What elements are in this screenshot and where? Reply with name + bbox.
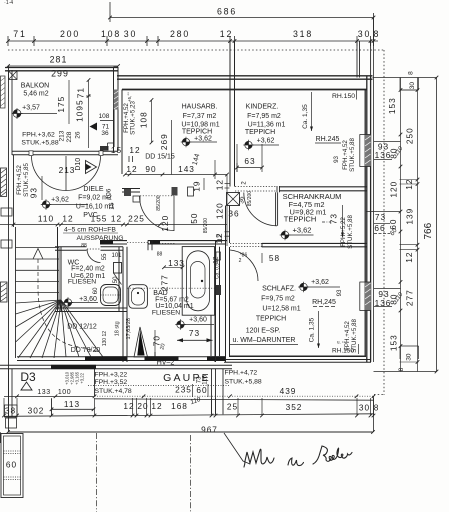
toilet [101,285,121,306]
svg-text:FPH.+4,72: FPH.+4,72 [225,370,258,377]
svg-text:88: 88 [81,243,87,249]
stair treads straight run [16,247,59,249]
svg-text:116: 116 [203,374,209,384]
svg-text:36: 36 [239,196,246,204]
svg-text:D3: D3 [20,370,36,384]
door arc diele [140,196,175,231]
svg-text:STUK.+5,88: STUK.+5,88 [347,214,354,248]
svg-text:12: 12 [126,164,137,174]
svg-text:12: 12 [111,214,122,224]
handwritten note WM in Keller [244,446,352,467]
window group lower: 93/136/80 [374,288,401,290]
tick extensions top right 30|8 [356,41,358,78]
svg-text:225: 225 [128,214,145,224]
dim chain line 1095 [88,80,90,148]
svg-text:38: 38 [5,406,16,416]
svg-text:DIELE: DIELE [83,186,104,193]
svg-text:175: 175 [56,96,66,113]
svg-text:153: 153 [387,97,397,114]
svg-text:73: 73 [329,213,339,224]
right chain line inner x400.5 [400,78,402,372]
svg-text:58: 58 [269,253,280,263]
svg-text:30: 30 [406,353,413,361]
svg-text:139: 139 [405,208,415,225]
stair winder fan [16,300,61,303]
svg-text:30: 30 [358,29,371,39]
bottom wall second line [0,364,232,366]
chimney hatch left lower [1,282,8,302]
svg-text:213: 213 [59,130,66,141]
svg-text:DD 70/20: DD 70/20 [71,347,101,354]
mid group 73/66/60 [366,211,401,213]
svg-text:U=12,58 m1: U=12,58 m1 [262,306,300,313]
svg-text:F=2,40 m2: F=2,40 m2 [71,266,105,273]
stair side wall [15,227,17,358]
dim 38 box [5,405,18,417]
svg-text:352: 352 [286,402,303,412]
svg-text:153: 153 [389,334,399,351]
wc right wall / bad divider [118,247,120,312]
svg-text:30: 30 [359,403,370,413]
svg-text:8: 8 [408,71,415,75]
svg-text:RH.150: RH.150 [332,93,355,100]
svg-text:FLIESEN: FLIESEN [152,310,180,317]
svg-text:25: 25 [227,402,238,412]
svg-text:143: 143 [178,164,195,174]
level mark +3,62 kinderz [243,140,253,150]
wc door arc [87,249,101,263]
diele north walls and posts [122,188,140,190]
wc top wall [55,246,123,248]
chimney hatch left wall [1,168,7,197]
leader line to handwriting [224,433,250,464]
stair walk line dashed [38,259,100,352]
right outer wall [366,76,368,362]
bottom right 8/30 box [399,346,401,359]
svg-text:235: 235 [175,385,192,395]
balcony top wall [5,67,118,69]
svg-text:12: 12 [123,401,134,411]
svg-text:12: 12 [404,179,414,190]
svg-text:·1·4¯: ·1·4¯ [4,0,16,6]
svg-text:108: 108 [101,29,121,39]
wc bottom wall [55,307,127,309]
gaupe side walls [94,369,96,397]
svg-text:+3,57: +3,57 [22,105,40,112]
svg-text:71: 71 [76,87,86,98]
svg-text:18 stg: 18 stg [115,321,121,336]
svg-text:TEPPICH: TEPPICH [284,214,317,223]
svg-text:250: 250 [405,127,415,144]
svg-text:STUK.+5,88: STUK.+5,88 [351,318,358,352]
svg-text:30: 30 [409,82,416,90]
svg-text:200: 200 [60,29,80,39]
door diele dotted opening [140,195,174,197]
svg-text:20: 20 [137,401,148,411]
svg-text:FPH.+3,52: FPH.+3,52 [95,379,128,386]
hausarb wall corner step [100,146,109,151]
svg-text:+3,62: +3,62 [311,279,329,286]
svg-text:+3,22: +3,22 [80,372,85,383]
svg-text:85/200: 85/200 [156,195,162,211]
svg-text:100: 100 [58,389,71,396]
svg-text:106: 106 [106,188,113,199]
svg-text:12: 12 [215,179,225,190]
svg-text:15: 15 [111,145,122,155]
balcony bottom wall with door [12,150,118,152]
dotted RH line bad [127,287,215,289]
svg-text:63: 63 [244,156,255,166]
door arc to schlafz lower [230,250,258,281]
svg-text:766: 766 [423,222,434,239]
label HV-2 [154,358,179,367]
svg-text:STUK.+4,78: STUK.+4,78 [95,388,132,395]
dash-dot verticals below [96,433,98,512]
left lower block [11,369,13,417]
svg-text:4–5 cm ROH=FB: 4–5 cm ROH=FB [64,227,116,234]
svg-text:12: 12 [213,256,220,264]
svg-text:STUK.+5,88: STUK.+5,88 [349,137,356,171]
svg-text:280: 280 [170,29,190,39]
svg-text:120: 120 [215,202,225,219]
svg-text:SCHLAFZ.: SCHLAFZ. [262,286,296,293]
svg-text:+3,62: +3,62 [293,225,312,234]
duct hatch between bad and schlafz [216,285,221,295]
corridor wall verticals [225,206,227,363]
balcony left wall [8,66,10,432]
wall diele south left segment [100,240,127,242]
right extension line x373 [373,18,375,362]
schlafz bottom wall [229,355,366,357]
bathtub [182,247,214,316]
svg-text:85/200: 85/200 [247,191,253,207]
svg-text:FPH.+4,52: FPH.+4,52 [342,140,349,170]
svg-text:73: 73 [189,328,200,338]
svg-text:STUK.+5,23: STUK.+5,23 [130,100,137,134]
svg-text:Ca. 1,35: Ca. 1,35 [302,104,309,129]
dotted opening schlafz door [230,243,262,245]
kinderz wall stub below 63 dim [236,144,238,172]
svg-text:FPH.+3,62: FPH.+3,62 [22,132,55,139]
svg-text:85/200: 85/200 [203,218,209,234]
svg-text:130 12: 130 12 [102,331,108,347]
dim row top (71/200/108/30/280/12/318/30/8) [8,40,378,42]
svg-text:8: 8 [374,29,380,39]
svg-text:8: 8 [374,403,380,413]
svg-text:TEPPICH: TEPPICH [256,316,286,323]
svg-text:DD 12/12: DD 12/12 [67,324,97,331]
svg-text:101: 101 [111,253,122,259]
svg-text:F=9,75 m2: F=9,75 m2 [261,296,295,303]
dotted lines lower diele [148,243,175,245]
svg-text:88: 88 [157,252,163,258]
post with X hatch [227,193,240,206]
svg-text:302: 302 [28,406,45,416]
svg-text:+3,60: +3,60 [189,317,207,324]
svg-text:HAUSARB.: HAUSARB. [182,104,218,111]
svg-text:F=7,95 m2: F=7,95 m2 [247,113,281,120]
svg-text:36: 36 [228,209,239,219]
svg-text:318: 318 [293,29,313,39]
balcony corner X box [9,71,18,80]
svg-text:36: 36 [101,130,109,137]
level mark +3,62 diele [41,199,51,209]
svg-text:299: 299 [51,68,69,78]
svg-text:155: 155 [91,214,108,224]
RH 245 arrow line [342,205,344,237]
svg-text:30: 30 [124,29,137,39]
svg-text:RH,245: RH,245 [312,299,336,306]
svg-text:12: 12 [220,29,233,39]
balcony right wall [113,67,115,151]
svg-text:1095: 1095 [75,99,85,121]
svg-text:RH.245: RH.245 [316,136,340,143]
svg-text:KINDERZ.: KINDERZ. [246,104,279,111]
schlafz top wall [262,242,367,244]
svg-text:FPH.+4,52: FPH.+4,52 [344,321,351,351]
balcony wall to main wall step [114,66,119,68]
svg-text:TEPPICH: TEPPICH [182,129,212,136]
svg-text:D10: D10 [75,158,82,171]
svg-text:12: 12 [62,214,73,224]
right chain line outer x417.5 [417,78,419,372]
svg-text:15: 15 [109,202,116,210]
balcony door double arc [32,156,101,191]
dotted wall opening kinderz-schrankraum [235,186,277,188]
svg-text:133: 133 [37,389,50,396]
level mark +3,62 schrankraum [280,230,291,241]
svg-text:STUK.+5,88: STUK.+5,88 [21,140,58,147]
svg-text:STUK.+5,88: STUK.+5,88 [225,379,262,386]
svg-text:213: 213 [59,165,76,175]
svg-text:U=11,36 m1: U=11,36 m1 [248,122,286,129]
svg-text:26: 26 [75,131,82,139]
level mark +3,62 hausarb [181,137,191,147]
svg-text:U=10,98 m1: U=10,98 m1 [181,122,219,129]
door arc schrankraum [244,193,277,226]
wall bad north [148,240,227,242]
svg-text:110: 110 [38,214,54,224]
svg-text:2: 2 [239,258,242,264]
bottom main dim line [4,414,374,417]
svg-text:73: 73 [375,212,386,222]
svg-text:168: 168 [171,401,188,411]
svg-text:967: 967 [201,425,218,435]
svg-text:90: 90 [145,164,156,174]
svg-text:5,46 m2: 5,46 m2 [23,91,48,98]
svg-text:93: 93 [336,289,343,296]
svg-text:17,63/28: 17,63/28 [126,318,132,339]
section wedge black triangles [134,327,148,357]
window hatch hausarb left wall [114,90,119,110]
main top wall inner face [122,89,367,91]
svg-text:439: 439 [280,386,297,396]
washbasin [129,285,148,309]
dim 686 overall top [110,17,374,19]
svg-text:120I E–SP.: 120I E–SP. [246,328,281,335]
wc left wall [57,227,59,312]
svg-text:Ca. 1,35: Ca. 1,35 [309,317,316,342]
level mark +3,62 schlafz [298,282,309,293]
svg-text:+5,°°: +5,°° [127,92,132,102]
svg-text:108: 108 [99,113,110,120]
svg-text:FPH.+5,22: FPH.+5,22 [340,217,347,247]
svg-text:+3,62: +3,62 [257,138,275,145]
svg-text:FPH.+3,22: FPH.+3,22 [95,372,128,379]
svg-text:93: 93 [333,155,340,162]
svg-text:228: 228 [66,131,73,142]
right top small box 8/30 [373,77,437,79]
window group top: 93/136/80 [374,141,401,143]
svg-text:12: 12 [129,145,140,155]
window hatch right wall upper [365,135,371,167]
wall bad right x215-219 [215,241,217,362]
svg-text:269: 269 [159,133,169,150]
svg-text:281: 281 [50,54,68,64]
door gap dotted diele-bad [127,241,148,243]
svg-text:BALKON: BALKON [21,83,49,90]
bottom wall main [17,356,225,358]
svg-text:71: 71 [13,29,26,39]
svg-text:120: 120 [389,181,399,198]
svg-text:DD 15/15: DD 15/15 [145,154,175,161]
left wall inner segments [13,155,15,227]
svg-text:u. WM–DARUNTER: u. WM–DARUNTER [232,337,295,344]
svg-text:60: 60 [93,287,99,294]
left wall hatch top [1,76,6,108]
svg-text:277: 277 [405,289,415,306]
svg-text:50: 50 [189,213,199,224]
hausarb left wall [113,90,115,148]
schrankraum top wall [279,186,367,188]
svg-text:113: 113 [64,399,80,409]
svg-text:66: 66 [374,223,385,233]
level mark +3,60 bad [175,319,185,329]
svg-text:F=7,37 m2: F=7,37 m2 [183,113,217,120]
svg-text:12: 12 [151,401,162,411]
window hatch right wall lower [365,282,371,311]
bad lower walls [154,352,156,362]
dim 12/120/12 vertical chain [226,175,228,247]
svg-text:FPH.+4,52: FPH.+4,52 [16,165,23,195]
dim 281 balcony [8,65,118,67]
svg-text:686: 686 [217,6,237,16]
main top wall [117,75,373,77]
dashed boundary line top [8,49,384,51]
svg-text:55: 55 [102,253,108,260]
svg-text:60: 60 [196,385,207,395]
svg-text:12: 12 [404,252,414,263]
level mark +3,57 [12,108,23,119]
door leaf schrankraum [275,192,277,226]
level mark +3,60 wc [63,297,73,307]
svg-text:19: 19 [192,181,202,192]
svg-text:FLIESEN: FLIESEN [68,279,96,286]
svg-text:TEPPICH: TEPPICH [245,129,275,136]
wall hausarb/kinderz divider [229,41,231,187]
svg-text:108: 108 [139,111,149,128]
svg-text:+3,62: +3,62 [51,197,69,204]
svg-text:8: 8 [398,367,405,371]
svg-text:60: 60 [6,460,17,470]
svg-text:93: 93 [29,187,39,198]
svg-text:277: 277 [160,274,170,291]
